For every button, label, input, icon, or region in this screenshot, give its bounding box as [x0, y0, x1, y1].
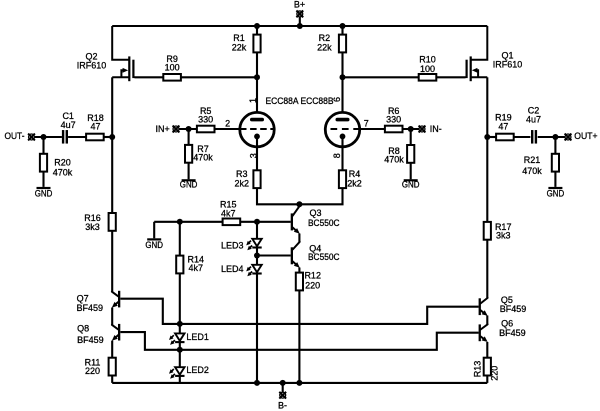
wire OUT- to C1: [35, 136, 62, 138]
MOSFET Q1: [466, 26, 488, 81]
svg-text:Q6: Q6: [501, 318, 513, 328]
triode U1A ECC88A: [240, 112, 275, 146]
terminal IN- pin: [418, 125, 425, 132]
ground GND under R7: [182, 179, 196, 181]
ground GND under R8: [404, 179, 418, 181]
node LED3/LED4/Q4 base: [254, 253, 260, 259]
wire R14 to LED1 node: [179, 273, 181, 324]
resistor R3: [253, 170, 260, 188]
LED LED2: [169, 367, 185, 379]
LED LED3: [246, 239, 262, 251]
svg-text:IN-: IN-: [430, 124, 442, 134]
wire Q4 emitter to R12: [298, 268, 300, 273]
wire column to R19: [487, 136, 496, 138]
wire Q7base-R14 to Q5 route: [180, 307, 479, 324]
wire C2 to OUT+: [538, 136, 565, 138]
node LED1/LED2/Q8 base: [177, 347, 183, 353]
wire R7 stub: [188, 129, 190, 145]
svg-text:470k: 470k: [522, 166, 542, 176]
transistor Q6: [479, 324, 488, 342]
wire R12 to bottom rail: [298, 290, 300, 383]
wire LED2 cathode to rail: [179, 376, 181, 383]
resistor R21: [552, 154, 559, 172]
node R14/R15: [177, 219, 183, 225]
svg-text:R13: R13: [472, 361, 482, 378]
wire R2 node to R10: [343, 76, 419, 78]
svg-text:470k: 470k: [193, 153, 213, 163]
svg-text:4k7: 4k7: [221, 208, 236, 218]
ground GND under R21: [548, 187, 562, 189]
node B+ junction: [297, 23, 303, 29]
svg-text:470k: 470k: [53, 168, 73, 178]
wire LED1 node to Q6 route: [180, 333, 479, 350]
node LED3 anode: [254, 219, 260, 225]
wire R15 line right to Q3 base: [240, 221, 291, 223]
wire R2 top: [341, 26, 343, 35]
LED LED4: [246, 265, 262, 277]
wire R8 to GND: [410, 163, 412, 180]
node top rail R1 tap: [254, 23, 260, 29]
node Q3 collector: [296, 201, 302, 207]
wire R7 to GND: [188, 163, 190, 180]
svg-text:GND: GND: [145, 240, 163, 250]
resistor R16: [109, 213, 116, 231]
svg-text:B+: B+: [294, 0, 305, 10]
svg-text:OUT-: OUT-: [5, 131, 25, 141]
resistor R7: [185, 145, 192, 163]
wire left column to R16: [111, 137, 113, 213]
svg-text:22k: 22k: [232, 42, 247, 52]
node B- junction: [280, 380, 286, 386]
svg-text:R12: R12: [304, 271, 321, 281]
wire R10 to Q1 gate: [436, 76, 465, 78]
wire LED4 cathode to rail: [256, 274, 258, 383]
svg-text:330: 330: [198, 115, 213, 125]
node rail R12 tap: [296, 380, 302, 386]
resistor R17: [484, 222, 491, 240]
wire R19 to C2: [514, 136, 531, 138]
transistor Q7: [112, 291, 121, 308]
wire R1 top: [256, 26, 258, 35]
wire Q4 base wire: [257, 254, 291, 256]
resistor R5: [197, 126, 215, 133]
resistor R15: [223, 219, 241, 226]
resistor R11: [109, 358, 116, 376]
svg-text:GND: GND: [180, 179, 198, 189]
svg-text:47: 47: [90, 121, 100, 131]
wire Q5 emitter to Q6: [486, 316, 488, 325]
wire tube A cathode down: [256, 136, 258, 170]
wire R9 to R1 node: [181, 76, 257, 78]
wire Q2 gate to R9: [135, 76, 164, 78]
wire LED1 cathode to node: [179, 342, 181, 350]
svg-text:4k7: 4k7: [189, 263, 204, 273]
resistor R6: [385, 126, 403, 133]
wire B+ stub: [299, 17, 301, 26]
svg-text:3k3: 3k3: [85, 222, 100, 232]
svg-text:2k2: 2k2: [347, 179, 362, 189]
svg-text:330: 330: [386, 115, 401, 125]
svg-text:1: 1: [248, 98, 258, 103]
wire R3 bottom corner: [257, 188, 343, 204]
terminal B+ pin: [296, 10, 303, 17]
wire R20 to GND: [42, 172, 44, 187]
svg-text:GND: GND: [402, 180, 420, 190]
resistor R19: [496, 134, 514, 141]
svg-text:100: 100: [420, 64, 435, 74]
wire Q6 emitter to R13: [486, 342, 488, 358]
wire R17 to Q5: [486, 240, 488, 298]
capacitor C1: [62, 130, 64, 144]
wire R5 to tube A grid: [215, 128, 241, 130]
svg-text:BF459: BF459: [499, 328, 526, 338]
terminal B- pin: [279, 392, 286, 399]
wire IN+ to R5: [179, 128, 197, 130]
resistor R14: [176, 256, 183, 274]
wire C1 to R18: [68, 136, 86, 138]
svg-text:IRF610: IRF610: [77, 61, 107, 71]
wire R16 to Q7: [111, 231, 113, 292]
svg-text:B-: B-: [278, 400, 287, 410]
wire LED4 anode wire: [256, 256, 258, 266]
resistor R9: [163, 74, 181, 81]
wire Q7 base route: [120, 299, 177, 324]
svg-text:LED4: LED4: [221, 264, 244, 274]
wire Q7 emitter to Q8: [111, 308, 113, 326]
wire Q8 emitter to R11: [111, 341, 113, 358]
svg-text:22k: 22k: [317, 42, 332, 52]
node R1/R9/tube A plate: [254, 74, 260, 80]
resistor R12: [296, 273, 303, 291]
svg-text:GND: GND: [35, 188, 53, 198]
wire right column to R17: [486, 137, 488, 222]
svg-text:47: 47: [498, 122, 508, 132]
resistor R18: [86, 134, 104, 141]
wire top rail B+: [112, 25, 487, 27]
wire R21 to GND: [554, 172, 556, 187]
wire R18 to left column: [104, 136, 113, 138]
wire tube B cathode down: [341, 136, 343, 170]
ground GND mid: [147, 238, 161, 240]
svg-text:BF459: BF459: [77, 303, 104, 313]
svg-text:8: 8: [332, 153, 342, 158]
wire Q3 emitter to Q4 collector: [298, 234, 300, 243]
svg-text:LED1: LED1: [186, 332, 209, 342]
wire R15 line left: [180, 221, 223, 223]
svg-text:Q3: Q3: [310, 208, 322, 218]
svg-text:6: 6: [332, 97, 342, 102]
svg-text:LED2: LED2: [186, 365, 209, 375]
wire B- stub: [282, 383, 284, 392]
svg-text:220: 220: [305, 280, 320, 290]
svg-text:R21: R21: [524, 155, 541, 165]
node rail LED4 tap: [254, 380, 260, 386]
svg-text:R1: R1: [233, 33, 245, 43]
svg-text:Q8: Q8: [77, 324, 89, 334]
svg-text:ECC88A ECC88B: ECC88A ECC88B: [266, 96, 334, 106]
wire LED3 anode wire: [256, 222, 258, 239]
resistor R20: [40, 154, 47, 172]
wire Q3 collector stub: [298, 204, 300, 206]
svg-text:470k: 470k: [384, 155, 404, 165]
resistor R2: [339, 35, 346, 53]
node OUT+/R21: [552, 134, 558, 140]
transistor Q5: [479, 298, 488, 316]
capacitor C2: [531, 130, 533, 144]
resistor R1: [253, 35, 260, 53]
transistor Q8: [112, 324, 121, 341]
node top rail R2 tap: [340, 23, 346, 29]
wire LED1 anode wire: [179, 324, 181, 334]
ground GND under R20: [37, 187, 51, 189]
svg-text:4u7: 4u7: [526, 114, 541, 124]
node IN-/R8: [408, 126, 414, 132]
wire Q8 base route: [120, 332, 177, 350]
transistor Q4: [291, 242, 300, 268]
svg-text:BF459: BF459: [77, 335, 104, 345]
wire R14 stub: [179, 222, 181, 256]
resistor R8: [407, 145, 414, 163]
wire R13 to rail: [486, 376, 488, 383]
terminal OUT+ pin: [564, 133, 571, 140]
node OUT-/R20: [41, 134, 47, 140]
svg-text:2k2: 2k2: [235, 179, 250, 189]
wire R1 to tube A plate: [256, 52, 258, 117]
wire R20 stub: [42, 137, 44, 154]
resistor R13: [484, 358, 491, 376]
svg-text:GND: GND: [547, 188, 565, 198]
wire bottom rail B-: [112, 382, 487, 384]
wire LED3 cathode to node: [256, 248, 258, 256]
transistor Q3: [291, 206, 300, 234]
wire R8 stub: [410, 129, 412, 145]
node R2/R10/tube B plate: [340, 74, 346, 80]
terminal IN+ pin: [172, 125, 179, 132]
wire tube B grid to R6: [360, 128, 385, 130]
wire GND branch: [154, 221, 180, 223]
svg-text:BC550C: BC550C: [308, 218, 340, 228]
svg-text:LED3: LED3: [221, 240, 244, 250]
wire R21 stub: [554, 137, 556, 154]
svg-text:OUT+: OUT+: [574, 131, 597, 141]
svg-text:220: 220: [490, 366, 500, 381]
svg-text:IN+: IN+: [156, 124, 170, 134]
node Q1 source/R19/R17: [484, 134, 490, 140]
svg-text:220: 220: [85, 366, 100, 376]
wire LED2 anode wire: [179, 350, 181, 368]
node Q2 source/R18/R16: [109, 134, 115, 140]
svg-text:R2: R2: [319, 33, 331, 43]
svg-text:BC550C: BC550C: [308, 252, 340, 262]
svg-text:4u7: 4u7: [61, 120, 76, 130]
svg-text:BF459: BF459: [500, 304, 527, 314]
terminal OUT- pin: [28, 133, 35, 140]
svg-text:100: 100: [165, 63, 180, 73]
triode U1B ECC88B: [325, 112, 360, 146]
wire R6 to IN-: [403, 128, 419, 130]
svg-text:7: 7: [364, 119, 369, 129]
node IN+/R7: [186, 126, 192, 132]
wire Q1 source down: [486, 77, 488, 137]
wire GND branch drop: [153, 222, 155, 239]
wire Q2 source down: [111, 77, 113, 137]
node R14/LED1/Q7 base: [177, 321, 183, 327]
svg-text:2: 2: [225, 119, 230, 129]
svg-text:3k3: 3k3: [496, 230, 511, 240]
MOSFET Q2: [112, 26, 134, 81]
wire R2 to tube B plate: [341, 52, 343, 117]
svg-text:R20: R20: [54, 157, 71, 167]
wire R11 to rail: [111, 376, 113, 383]
resistor R4: [339, 170, 346, 188]
svg-text:IRF610: IRF610: [493, 59, 523, 69]
resistor R10: [419, 74, 437, 81]
LED LED1: [169, 333, 185, 345]
